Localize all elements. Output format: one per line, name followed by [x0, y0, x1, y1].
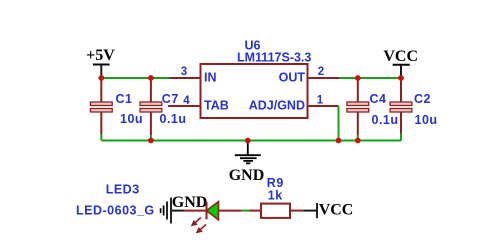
pin 1 of U6 (ADJ/GND): [308, 105, 339, 107]
resistor R9: [249, 204, 303, 218]
junction node dots top: [98, 75, 404, 81]
svg-text:LM1117S-3.3: LM1117S-3.3: [237, 51, 311, 65]
wire out rail green: [339, 77, 401, 79]
svg-text:IN: IN: [204, 71, 217, 85]
svg-text:0.1u: 0.1u: [372, 113, 399, 127]
svg-text:C7: C7: [162, 92, 179, 106]
port bar VCC: [316, 203, 318, 218]
power bar VCC: [393, 64, 410, 66]
pin 3 of U6: [169, 77, 201, 79]
wire gnd to LED: [171, 210, 184, 212]
wire LED to R9 green: [242, 210, 250, 212]
svg-text:1: 1: [317, 94, 324, 106]
svg-text:GND: GND: [172, 194, 208, 211]
wire VCC stem: [400, 65, 402, 78]
svg-text:LED-0603_G: LED-0603_G: [76, 203, 155, 217]
LED3 diode: [184, 202, 242, 220]
svg-text:10u: 10u: [415, 113, 438, 127]
ground symbol (LED, rotated left): [161, 198, 171, 224]
svg-text:0.1u: 0.1u: [160, 112, 187, 126]
svg-text:2: 2: [318, 66, 324, 78]
svg-text:3: 3: [181, 66, 187, 78]
LED emission arrow 1: [192, 218, 201, 226]
power bar +5V: [93, 64, 110, 66]
svg-text:+5V: +5V: [86, 47, 115, 64]
svg-text:OUT: OUT: [279, 71, 306, 85]
svg-text:VCC: VCC: [383, 48, 418, 65]
svg-text:4: 4: [183, 95, 190, 107]
svg-text:C1: C1: [116, 92, 133, 106]
wire pin1 drop: [338, 106, 340, 141]
svg-text:LED3: LED3: [106, 183, 140, 197]
capacitor C4: [347, 78, 369, 141]
capacitor C7: [140, 78, 162, 141]
wire top rail green: [101, 77, 169, 79]
svg-text:GND: GND: [229, 167, 265, 184]
wire +5V stem: [100, 65, 102, 79]
svg-text:VCC: VCC: [319, 202, 354, 219]
ground symbol (bottom rail): [235, 141, 261, 164]
svg-text:TAB: TAB: [204, 99, 229, 113]
svg-text:C4: C4: [370, 92, 387, 106]
wire to VCC port: [304, 210, 318, 212]
pin 2 of U6 (OUT): [308, 77, 340, 79]
svg-text:C2: C2: [414, 92, 431, 106]
svg-text:1k: 1k: [268, 189, 283, 203]
wire bottom rail green: [101, 140, 401, 142]
capacitor C2: [390, 78, 412, 141]
svg-text:ADJ/GND: ADJ/GND: [249, 99, 305, 113]
op-amp U6 body: [201, 64, 308, 118]
junction node dots bottom: [148, 138, 361, 144]
capacitor C1: [90, 78, 112, 141]
LED emission arrow 2: [197, 225, 206, 233]
pin 4 of U6 (TAB): [168, 105, 201, 107]
svg-text:10u: 10u: [120, 112, 143, 126]
